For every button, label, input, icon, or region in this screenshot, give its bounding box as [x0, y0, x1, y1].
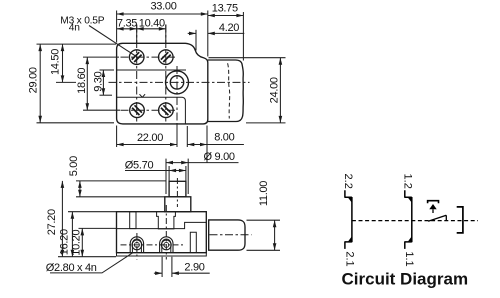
screw hole top-left	[129, 50, 144, 65]
cap (right extension, top view)	[208, 60, 244, 122]
svg-text:11.00: 11.00	[258, 181, 270, 206]
svg-text:9.30: 9.30	[93, 71, 105, 91]
plunger bracket	[457, 207, 463, 233]
plunger collar	[165, 197, 191, 212]
svg-text:2.2: 2.2	[342, 174, 354, 189]
screw column centerline left	[136, 25, 138, 122]
svg-text:Circuit Diagram: Circuit Diagram	[342, 270, 469, 289]
svg-text:Ø 9.00: Ø 9.00	[204, 151, 235, 163]
terminal 1.2 mark	[404, 190, 412, 203]
extension line screw column right	[165, 25, 167, 44]
screw row centerline bottom	[121, 109, 177, 111]
plunger centerline	[176, 178, 178, 207]
side cylinder actuator	[209, 220, 245, 250]
dim 10.40	[137, 18, 166, 31]
dim 27.20	[46, 181, 116, 257]
svg-text:M3 x 0.5P: M3 x 0.5P	[60, 16, 104, 27]
terminal centerline left	[136, 233, 138, 260]
left slot	[130, 212, 136, 229]
label 1.2	[402, 174, 414, 189]
label 2.2	[342, 174, 354, 189]
svg-text:4.20: 4.20	[219, 22, 239, 34]
dim 2.90	[154, 257, 210, 277]
center boss circles	[166, 71, 189, 94]
dim 16.20	[59, 212, 116, 257]
dim 14.50	[50, 44, 76, 82]
svg-text:13.75: 13.75	[212, 2, 238, 14]
pushbutton actuator bar	[428, 201, 439, 204]
terminal 2.2 mark	[344, 190, 352, 203]
svg-text:2.90: 2.90	[184, 262, 204, 274]
terminal centerline right	[165, 205, 167, 260]
internal line lower with notch	[117, 94, 186, 124]
label dia 2.80 x 4n with leader	[46, 252, 133, 274]
circuit diagram title	[342, 270, 469, 289]
boss vertical centerline	[176, 66, 178, 147]
svg-text:Ø2.80 x 4n: Ø2.80 x 4n	[46, 262, 97, 274]
dim 13.75	[208, 2, 244, 60]
svg-text:1.2: 1.2	[402, 174, 414, 189]
screw hole top-right	[159, 50, 174, 65]
terminal row centerline	[121, 244, 185, 246]
terminal left	[130, 237, 143, 253]
dim 18.60	[76, 57, 120, 110]
dashed link line	[352, 220, 478, 222]
label M3 x 0.5P with leader	[60, 16, 135, 56]
svg-text:1.1: 1.1	[403, 251, 415, 266]
dim 29.00	[28, 44, 116, 123]
svg-text:24.00: 24.00	[269, 77, 281, 103]
terminal right	[160, 237, 173, 253]
dim 9.30	[93, 70, 114, 95]
dim 11.00	[247, 181, 281, 251]
extension line boss below body	[176, 125, 178, 148]
TOPVIEW DIMENSIONS	[28, 1, 286, 163]
svg-text:16.20: 16.20	[59, 229, 71, 255]
pole 1 contact line	[411, 197, 413, 242]
FRONTVIEW	[117, 178, 252, 260]
TOPVIEW	[109, 25, 250, 148]
dim dia 5.70	[125, 160, 186, 182]
screw hole bottom-right	[159, 103, 174, 118]
pole 2 contact line	[351, 197, 353, 242]
svg-text:27.20: 27.20	[46, 209, 58, 235]
svg-text:7.35: 7.35	[117, 18, 137, 30]
label 1.1	[403, 251, 415, 266]
svg-text:2.1: 2.1	[343, 251, 355, 266]
svg-text:10.40: 10.40	[139, 18, 165, 30]
svg-text:14.50: 14.50	[50, 49, 62, 75]
plunger stem	[169, 181, 186, 197]
bottom flange	[117, 253, 207, 256]
svg-text:10.20: 10.20	[70, 230, 82, 256]
terminal 2.1 mark	[344, 236, 352, 249]
dim 4.20	[188, 22, 245, 51]
switch body outline (top view)	[117, 43, 208, 124]
switch body (front view)	[117, 212, 207, 253]
screw column centerline right	[165, 25, 167, 122]
center slot	[157, 212, 176, 229]
screw row centerline top	[121, 56, 177, 58]
switch blade	[428, 215, 446, 221]
svg-text:5.00: 5.00	[68, 156, 80, 176]
cylinder centerline	[210, 234, 252, 236]
label 2.1	[343, 251, 355, 266]
dim 24.00	[209, 58, 286, 123]
svg-text:33.00: 33.00	[150, 1, 176, 13]
svg-text:4n: 4n	[69, 23, 80, 34]
extension line screw column left	[136, 25, 138, 44]
CIRCUIT	[342, 174, 479, 289]
screw hole bottom-left	[130, 103, 145, 118]
pushbutton actuator arrow	[429, 204, 436, 213]
dim 7.35	[117, 18, 138, 31]
svg-text:18.60: 18.60	[76, 68, 88, 94]
dim 8.00	[187, 126, 244, 163]
svg-text:29.00: 29.00	[28, 67, 40, 93]
dim 33.00	[117, 1, 208, 57]
svg-text:Ø5.70: Ø5.70	[125, 160, 154, 172]
terminal 1.1 mark	[404, 236, 412, 249]
internal right rib	[190, 232, 196, 252]
svg-text:22.00: 22.00	[137, 132, 163, 144]
dim 22.00	[117, 126, 177, 148]
internal line upper	[117, 69, 186, 71]
FRONTVIEW DIMENSIONS	[46, 151, 280, 277]
dim dia 9.00	[166, 151, 239, 194]
internal shelf line	[117, 222, 207, 228]
main horizontal centerline	[109, 81, 250, 83]
svg-text:8.00: 8.00	[214, 132, 234, 144]
dim 10.20	[70, 228, 116, 256]
dim 5.00	[68, 156, 166, 197]
